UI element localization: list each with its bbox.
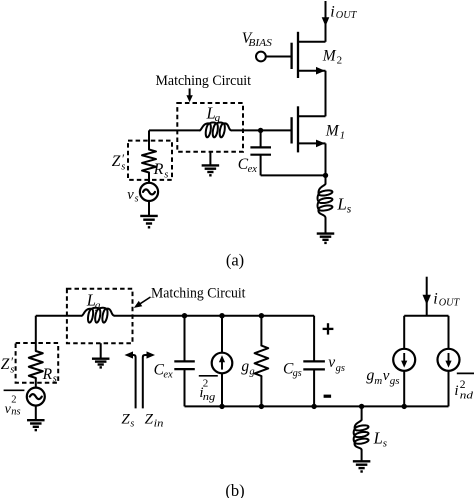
svg-text:g: g <box>241 358 249 375</box>
svg-text:nd: nd <box>460 390 474 401</box>
svg-text:Z: Z <box>145 412 154 428</box>
svg-text:m: m <box>374 375 382 387</box>
svg-text:L: L <box>373 428 383 447</box>
svg-text:v: v <box>383 368 390 384</box>
svg-text:v: v <box>328 354 335 371</box>
svg-text:g: g <box>215 112 221 124</box>
svg-text:g: g <box>366 367 374 384</box>
svg-text:s: s <box>135 193 139 204</box>
svg-text:(b): (b) <box>225 481 244 498</box>
svg-text:g: g <box>249 366 254 377</box>
svg-text:ng: ng <box>203 392 216 403</box>
svg-text:R: R <box>153 161 164 178</box>
svg-text:Matching Circuit: Matching Circuit <box>156 73 252 89</box>
svg-text:i: i <box>433 291 437 308</box>
svg-text:2: 2 <box>460 379 466 391</box>
svg-text:g: g <box>95 299 101 311</box>
svg-text:ex: ex <box>248 164 258 175</box>
svg-text:M: M <box>325 122 340 139</box>
svg-text:s: s <box>53 373 57 384</box>
svg-text:s: s <box>383 437 387 449</box>
svg-text:Z: Z <box>121 412 130 428</box>
svg-text:L: L <box>336 194 346 213</box>
svg-text:2: 2 <box>337 54 343 66</box>
svg-text:s: s <box>164 169 168 180</box>
svg-text:R: R <box>42 366 53 383</box>
svg-text:i: i <box>330 4 334 21</box>
svg-text:2: 2 <box>11 395 16 406</box>
svg-text:M: M <box>322 47 337 64</box>
svg-text:in: in <box>154 418 164 429</box>
svg-text:gs: gs <box>336 363 345 374</box>
svg-text:gs: gs <box>293 368 302 379</box>
svg-text:BIAS: BIAS <box>248 38 272 49</box>
svg-text:Matching Circuit: Matching Circuit <box>151 286 246 302</box>
svg-text:1: 1 <box>340 129 346 141</box>
svg-text:s: s <box>347 204 352 216</box>
svg-text:(a): (a) <box>226 250 244 269</box>
svg-text:2: 2 <box>203 378 209 390</box>
svg-text:Z: Z <box>1 356 10 373</box>
svg-text:ns: ns <box>11 407 20 418</box>
svg-text:′: ′ <box>10 355 13 369</box>
svg-text:gs: gs <box>390 375 400 387</box>
svg-text:OUT: OUT <box>439 297 461 308</box>
svg-text:i: i <box>454 383 458 399</box>
svg-text:ex: ex <box>163 369 173 380</box>
svg-text:Z: Z <box>112 153 121 170</box>
svg-text:s: s <box>130 418 134 429</box>
svg-text:v: v <box>127 187 134 203</box>
svg-text:′: ′ <box>121 152 124 166</box>
svg-text:OUT: OUT <box>336 10 358 21</box>
